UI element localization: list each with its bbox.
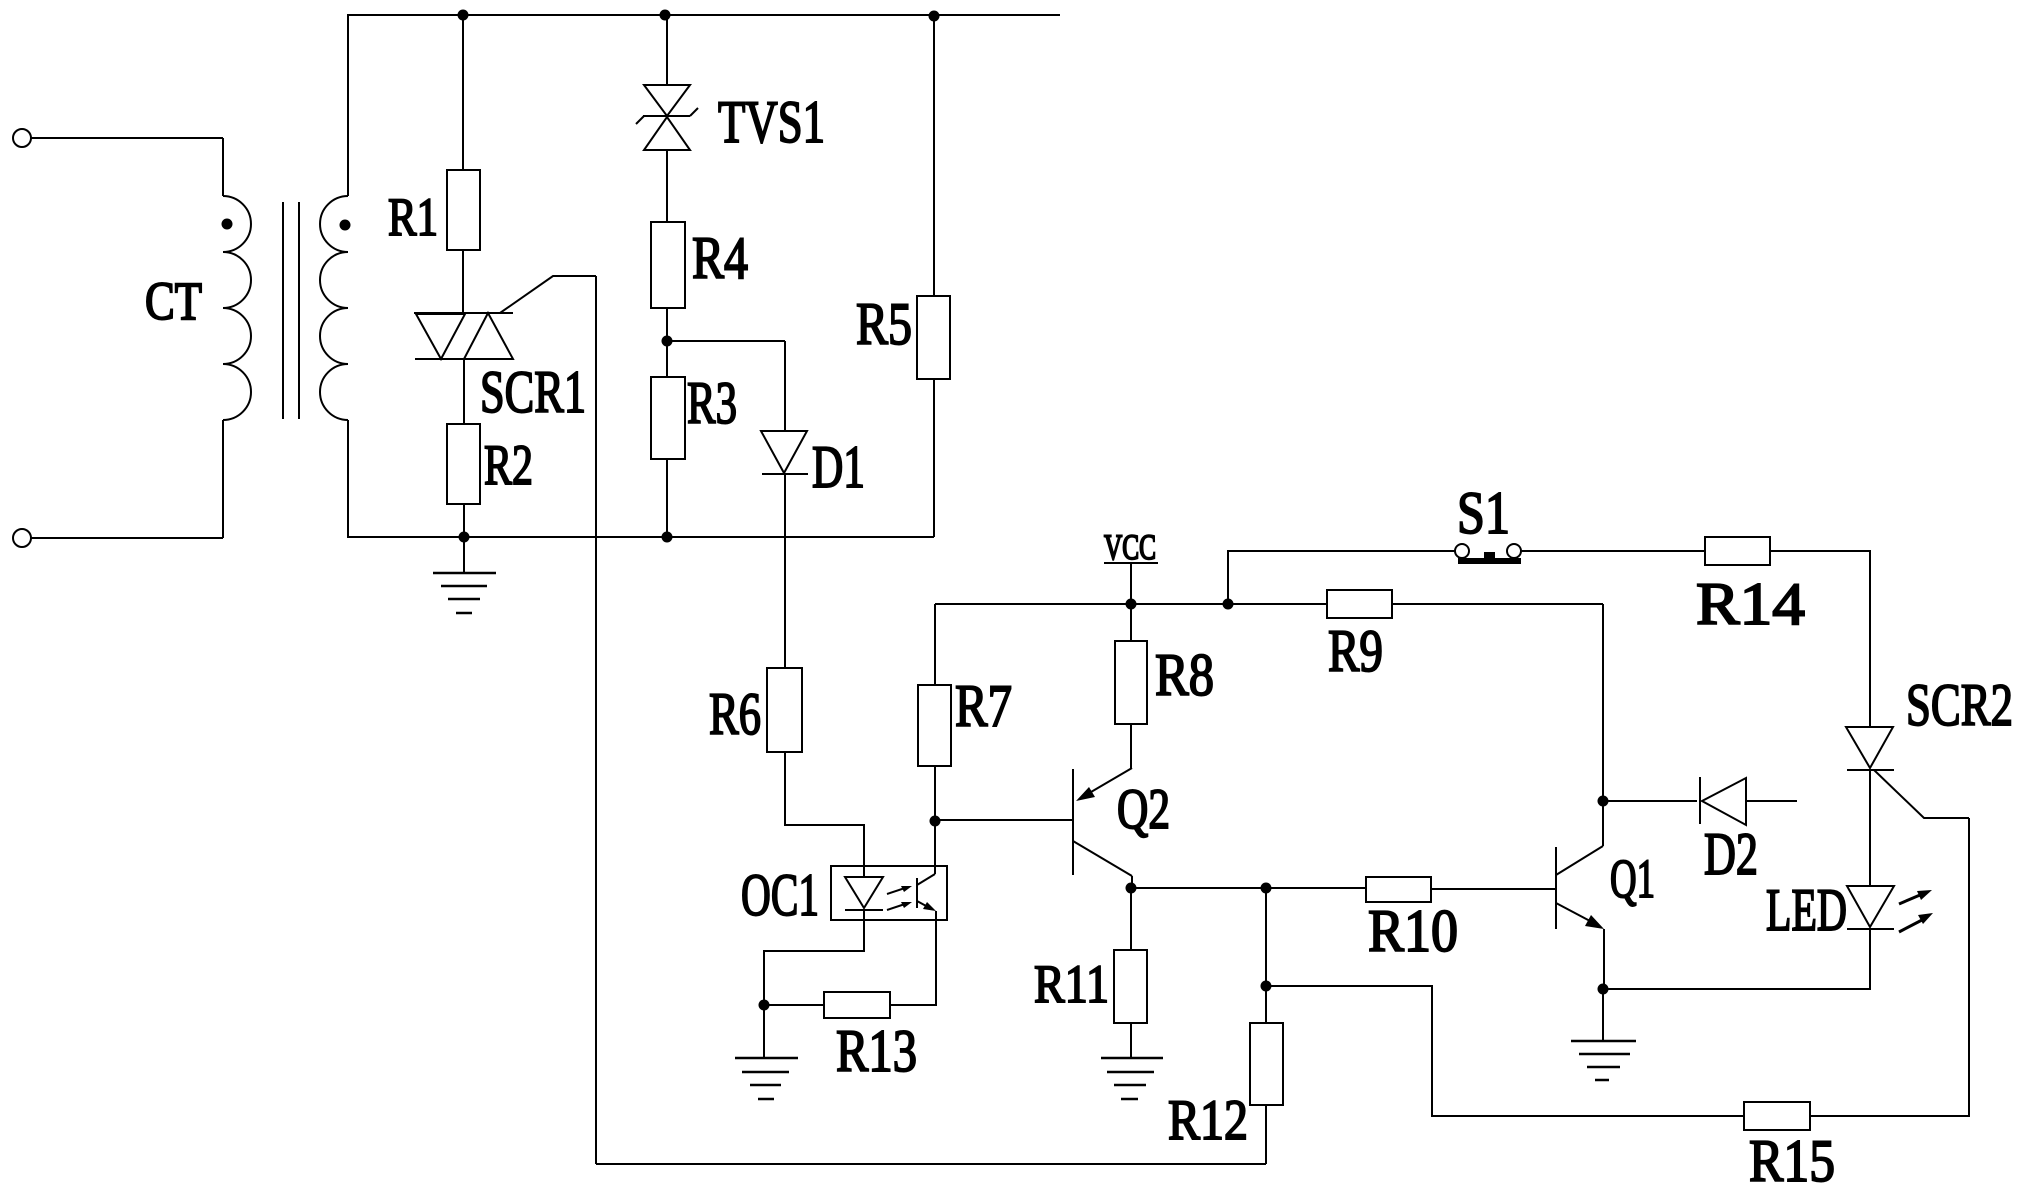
wire [1431, 888, 1556, 890]
junction [759, 1000, 770, 1011]
svg-text:SCR1: SCR1 [480, 359, 586, 425]
svg-text:LED: LED [1766, 877, 1847, 943]
wire [934, 766, 936, 821]
OC1 internal LED [845, 877, 883, 910]
wire [1521, 550, 1705, 552]
wire [1603, 800, 1697, 802]
wire [933, 379, 935, 537]
svg-text:VCC: VCC [1104, 527, 1156, 567]
wire [666, 15, 668, 85]
svg-text:OC1: OC1 [741, 862, 819, 928]
wire [463, 504, 465, 537]
junction [1223, 599, 1234, 610]
svg-text:S1: S1 [1457, 480, 1510, 546]
transformer core [283, 202, 299, 419]
wire [764, 910, 864, 1005]
junction [1261, 981, 1272, 992]
wire (Q2 base wire) [935, 819, 1073, 821]
svg-text:R4: R4 [692, 225, 748, 291]
wire [1603, 929, 1605, 989]
junction [1598, 796, 1609, 807]
resistor R2 [447, 424, 480, 504]
ground (under R11) [1101, 1058, 1163, 1099]
wire [667, 341, 785, 431]
wire [785, 752, 864, 877]
svg-text:Q2: Q2 [1117, 778, 1170, 841]
ground (under Q1) [1571, 989, 1636, 1080]
svg-text:R12: R12 [1168, 1089, 1248, 1152]
wire [1130, 604, 1132, 641]
wire [890, 911, 936, 1005]
wire [222, 138, 224, 196]
svg-text:R9: R9 [1328, 618, 1383, 684]
LED [1847, 886, 1933, 932]
optocoupler OC1 [831, 866, 947, 920]
svg-text:D1: D1 [812, 434, 865, 500]
wire (bottom rail) [347, 536, 934, 538]
wire [1770, 551, 1870, 727]
wire [222, 420, 224, 538]
junction [1126, 883, 1137, 894]
wire [934, 604, 936, 685]
svg-text:SCR2: SCR2 [1906, 672, 2013, 738]
svg-text:R1: R1 [388, 187, 438, 247]
wire [463, 359, 465, 424]
wire [1266, 986, 1744, 1116]
resistor R13 [824, 992, 890, 1018]
svg-text:TVS1: TVS1 [718, 89, 825, 155]
wire [1131, 876, 1133, 888]
ground (under R13 node) [735, 1005, 798, 1099]
OC1 phototransistor [917, 874, 936, 911]
resistor R1 [447, 170, 480, 250]
resistor R6 [767, 668, 802, 752]
wire [666, 150, 668, 222]
junction [1261, 883, 1272, 894]
svg-text:CT: CT [145, 271, 202, 331]
svg-text:R7: R7 [955, 673, 1012, 739]
svg-text:R14: R14 [1696, 571, 1805, 637]
wire [1130, 724, 1132, 768]
wire (gate run down) [595, 276, 597, 1164]
wire [1869, 770, 1871, 886]
svg-text:R10: R10 [1368, 898, 1458, 964]
transistor Q1 (NPN) [1556, 846, 1604, 929]
wire [1228, 551, 1455, 604]
SCR1 gate wire [500, 276, 596, 313]
wire [1265, 986, 1267, 1023]
wire [347, 420, 349, 537]
resistor R9 [1327, 590, 1392, 618]
VCC power symbol [1104, 563, 1158, 604]
transformer CT secondary winding [320, 196, 348, 420]
wire [934, 821, 936, 874]
wire (bottom run) [596, 1163, 1266, 1165]
wire [784, 474, 786, 668]
svg-text:R5: R5 [856, 291, 912, 357]
switch S1 [1455, 544, 1521, 564]
wire [1131, 887, 1366, 889]
resistor R8 [1115, 641, 1147, 724]
wire [933, 16, 935, 296]
wire [666, 459, 668, 537]
thyristor SCR2 [1846, 727, 1894, 770]
wire (VCC rail) [935, 603, 1603, 605]
svg-text:R6: R6 [709, 681, 761, 747]
junction [662, 336, 673, 347]
diode D2 [1700, 777, 1797, 825]
wire [1130, 888, 1132, 950]
transistor Q2 (PNP) [1073, 768, 1132, 876]
polarity dot (secondary) [340, 220, 351, 231]
wire [31, 537, 223, 539]
polarity dot (primary) [222, 219, 233, 230]
junction [459, 532, 470, 543]
svg-text:R13: R13 [836, 1018, 917, 1084]
diode D1 [761, 431, 808, 474]
wire [462, 250, 464, 313]
wire [1602, 604, 1604, 801]
wire [1810, 818, 1969, 1116]
OC1 light arrows [887, 886, 912, 910]
TVS diode TVS1 [636, 85, 698, 150]
junction [660, 10, 671, 21]
terminal (top-left input) [13, 129, 31, 147]
SCR2 gate wire [1874, 770, 1969, 818]
svg-text:R8: R8 [1155, 642, 1214, 708]
transformer CT primary winding [223, 196, 251, 420]
wire [1603, 929, 1870, 989]
svg-text:R2: R2 [484, 434, 533, 497]
junction [1598, 984, 1609, 995]
svg-text:R15: R15 [1749, 1128, 1835, 1186]
wire (top rail) [347, 14, 1060, 16]
resistor R15 [1744, 1102, 1810, 1130]
junction [929, 11, 940, 22]
wire [666, 308, 668, 341]
svg-text:R3: R3 [687, 370, 737, 436]
wire [1602, 801, 1604, 846]
resistor R7 [918, 685, 951, 766]
triac SCR1 [414, 313, 513, 359]
resistor R12 [1250, 1023, 1283, 1105]
junction [662, 532, 673, 543]
junction [930, 816, 941, 827]
wire [462, 15, 464, 170]
resistor R14 [1705, 537, 1770, 565]
wire [666, 341, 668, 377]
resistor R5 [917, 296, 950, 379]
resistor R4 [651, 222, 685, 308]
svg-text:D2: D2 [1704, 821, 1758, 887]
wire [347, 15, 349, 196]
svg-text:R11: R11 [1034, 954, 1109, 1014]
wire [1130, 1023, 1132, 1058]
resistor R10 [1366, 877, 1431, 902]
wire [31, 137, 223, 139]
svg-text:Q1: Q1 [1610, 848, 1655, 909]
wire [1265, 1105, 1267, 1164]
junction [1126, 599, 1137, 610]
wire [1265, 888, 1267, 986]
terminal (bottom-left input) [13, 529, 31, 547]
ground (under R2) [433, 537, 496, 613]
wire [764, 1004, 824, 1006]
resistor R11 [1114, 950, 1147, 1023]
junction [458, 10, 469, 21]
resistor R3 [651, 377, 685, 459]
